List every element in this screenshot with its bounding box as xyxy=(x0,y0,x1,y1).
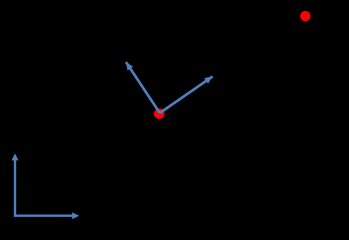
axis arrowhead right xyxy=(72,212,79,219)
red dot B (vertex ball) xyxy=(154,108,165,119)
vector arrow left-up xyxy=(126,62,160,113)
axis arrowhead up xyxy=(12,153,19,160)
red dot A (top right) xyxy=(300,11,310,21)
axes elbow xyxy=(15,158,75,216)
vector arrow right-up xyxy=(160,76,213,113)
